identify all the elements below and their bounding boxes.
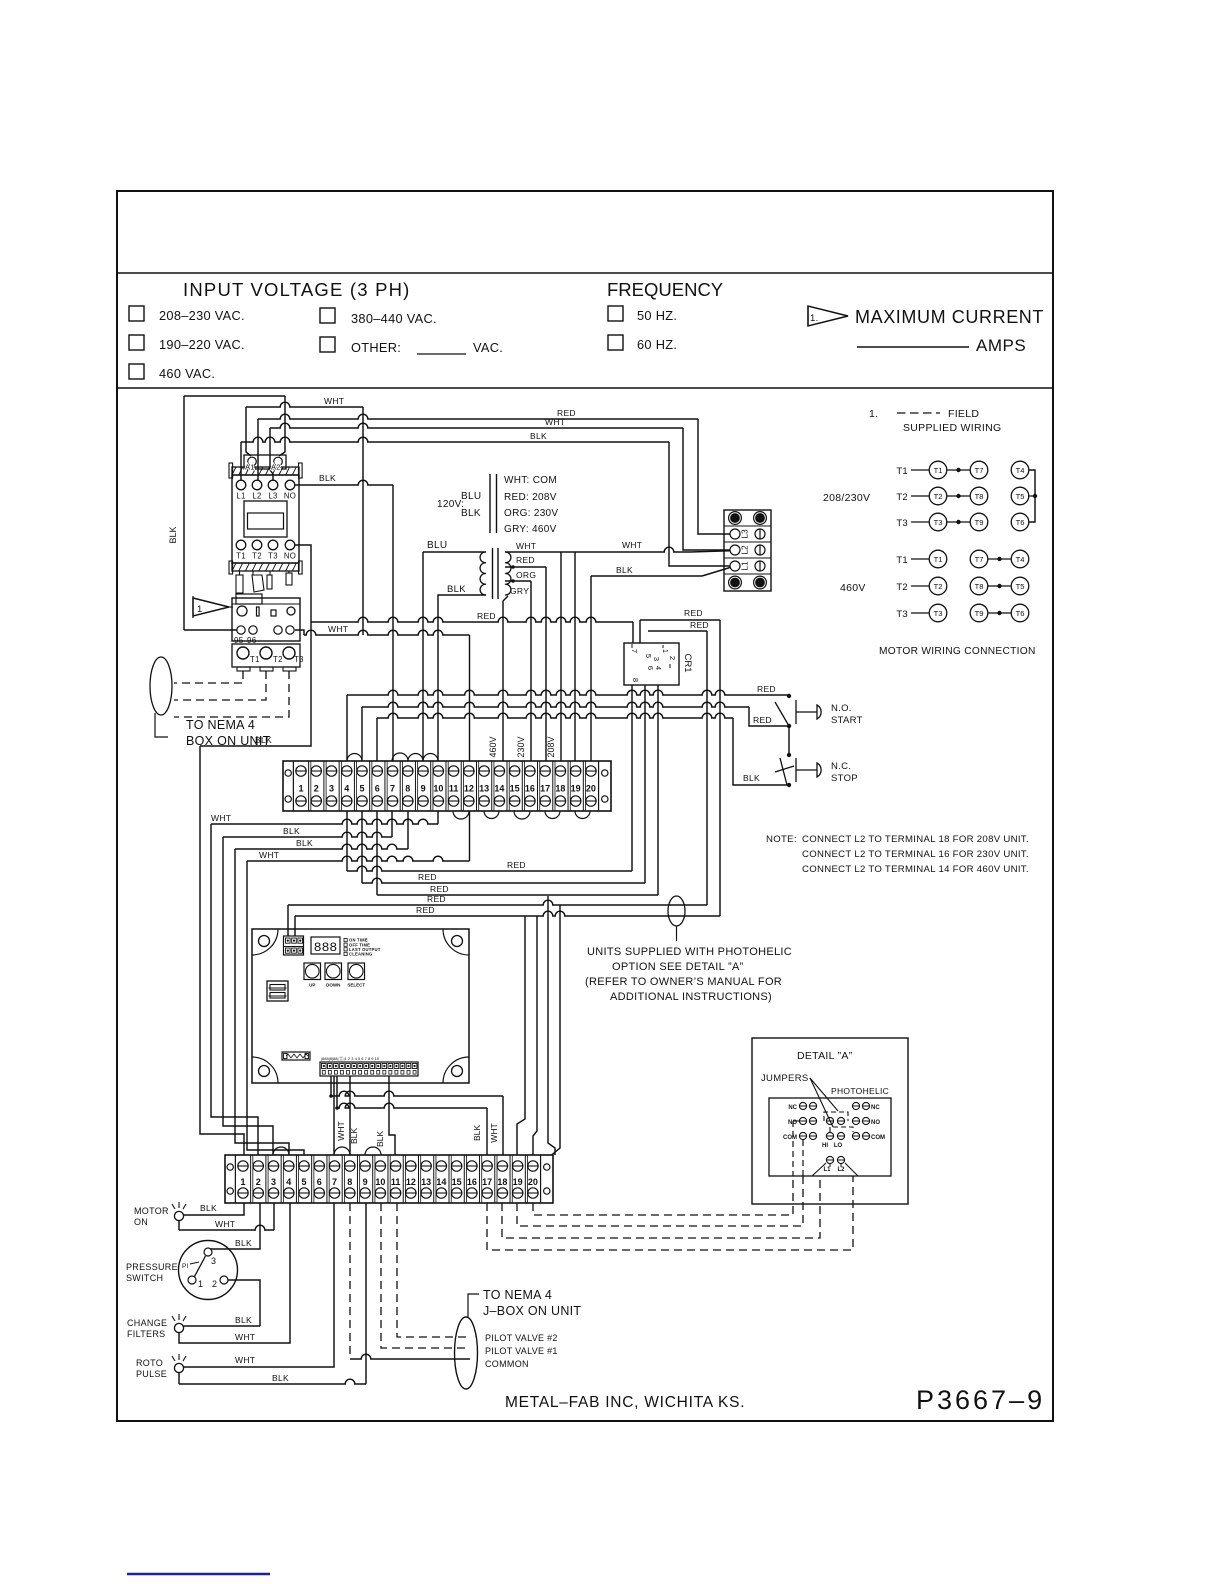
photohelic L1 L2	[826, 1156, 833, 1163]
svg-text:DOWN: DOWN	[326, 983, 340, 988]
terminal strip lower	[225, 1155, 553, 1203]
dashed lead T2	[174, 671, 266, 700]
contactor L3 pole	[268, 480, 278, 490]
svg-text:208–230 VAC.: 208–230 VAC.	[159, 308, 245, 323]
svg-text:14: 14	[494, 784, 504, 794]
svg-text:PHOTOHELIC: PHOTOHELIC	[831, 1086, 889, 1096]
svg-text:RED: RED	[507, 860, 526, 870]
svg-text:ROTO: ROTO	[136, 1358, 163, 1368]
overload relay notch	[236, 594, 262, 604]
svg-text:18: 18	[497, 1177, 507, 1187]
svg-text:1: 1	[197, 604, 203, 615]
svg-text:5: 5	[302, 1177, 307, 1187]
svg-text:CONNECT L2 TO TERMINAL 18: CONNECT L2 TO TERMINAL 18 FOR 208V UNIT.	[802, 834, 1029, 845]
pressure switch contact 1	[188, 1276, 196, 1284]
svg-text:T1: T1	[236, 552, 246, 561]
relay CR1 box	[624, 643, 679, 685]
transformer primary coil	[480, 552, 486, 595]
photohelic COM left wire	[802, 1140, 804, 1176]
wire WHT drop to t18	[560, 552, 562, 761]
svg-text:T8: T8	[975, 582, 984, 591]
svg-text:T9: T9	[975, 518, 984, 527]
transformer legend bars	[489, 474, 491, 533]
svg-text:20: 20	[528, 1177, 538, 1187]
option callout ellipse	[668, 896, 685, 926]
svg-text:FREQUENCY: FREQUENCY	[607, 279, 723, 300]
svg-text:P3667–9: P3667–9	[916, 1385, 1045, 1415]
svg-text:PILOT VALVE #2: PILOT VALVE #2	[485, 1333, 558, 1343]
wire t12 top stub	[469, 635, 471, 761]
contactor NO bottom pole	[285, 540, 295, 550]
wire ctrl BLK t8	[349, 1076, 351, 1155]
nema box ellipse	[150, 657, 172, 715]
overload aux terminals	[274, 626, 282, 634]
svg-text:T1: T1	[250, 655, 260, 664]
svg-text:JUMPERS: JUMPERS	[761, 1073, 809, 1084]
svg-text:T1: T1	[896, 466, 908, 477]
overload lever	[257, 607, 260, 616]
option callout leader	[676, 926, 678, 941]
svg-text:WHT: COM: WHT: COM	[504, 475, 557, 486]
svg-text:BLK: BLK	[616, 565, 633, 575]
svg-text:20: 20	[586, 784, 596, 794]
svg-text:18: 18	[555, 784, 565, 794]
wire t5 down	[361, 811, 363, 883]
svg-text:NO: NO	[284, 492, 296, 501]
wire BLK into L1	[669, 442, 730, 566]
wire roto WHT	[184, 1203, 334, 1367]
wire t8 stub	[407, 811, 409, 849]
wire CR1 pin6 bottom	[644, 685, 646, 883]
svg-text:WHT: WHT	[545, 417, 565, 427]
detail A outer box	[752, 1038, 908, 1204]
svg-text:1: 1	[240, 1177, 245, 1187]
photohelic jumper dashes	[824, 1112, 848, 1121]
svg-text:RED: RED	[427, 894, 446, 904]
checkbox 60HZ	[608, 335, 623, 350]
svg-text:WHT: WHT	[235, 1355, 255, 1365]
svg-text:CHANGE: CHANGE	[127, 1318, 167, 1328]
svg-text:ORG: 230V: ORG: 230V	[504, 508, 558, 519]
contactor linkage	[236, 575, 243, 593]
wire vert x363 WHT	[362, 407, 364, 635]
svg-text:L2: L2	[837, 1167, 845, 1173]
svg-text:T1: T1	[934, 466, 943, 475]
wire vert x246 to A1	[246, 407, 251, 456]
start switch arm	[775, 702, 789, 726]
upper strip hop arcs top	[347, 754, 362, 761]
wire WHT drop to t19	[574, 552, 576, 761]
contactor A1A2 box	[244, 455, 286, 469]
svg-text:UP: UP	[309, 983, 315, 988]
svg-text:1: 1	[661, 649, 670, 653]
checkbox 460	[129, 364, 144, 379]
contactor L1 pole	[236, 480, 246, 490]
svg-text:WHT: WHT	[336, 1121, 346, 1140]
wire t12 bottom stub	[469, 811, 471, 861]
wire vert L3 feed	[270, 428, 273, 480]
overload top line	[232, 603, 300, 605]
svg-text:J–BOX ON UNIT: J–BOX ON UNIT	[483, 1304, 581, 1318]
controller fuse	[267, 981, 288, 1001]
svg-text:CR1: CR1	[682, 653, 693, 672]
svg-text:T2: T2	[896, 492, 908, 503]
wire RED drop to t17	[545, 567, 547, 761]
wire t6 down	[376, 811, 378, 895]
svg-text:5: 5	[644, 654, 653, 658]
svg-text:GRY: 460V: GRY: 460V	[504, 524, 557, 535]
wire filters BLK	[184, 1325, 260, 1327]
svg-text:RED: RED	[690, 620, 709, 630]
power block rows	[724, 525, 771, 527]
controller indicator labels	[344, 939, 347, 942]
svg-text:|888|8|88| ▒ |1 2 3 4 5: |888|8|88| ▒ |1 2 3 4 5 6 7 8 9 10	[321, 1056, 380, 1061]
photohelic box	[769, 1098, 891, 1176]
wire RED y631	[648, 630, 707, 632]
nema box leader	[155, 713, 168, 737]
start actuator bar	[795, 700, 797, 724]
svg-text:3: 3	[211, 1256, 216, 1266]
wire BLK y837	[223, 832, 392, 837]
checkbox OTHER	[320, 337, 335, 352]
svg-text:12: 12	[406, 1177, 416, 1187]
lamp ROTO PULSE	[174, 1363, 183, 1372]
svg-text:888: 888	[314, 940, 337, 955]
wire 95 left	[184, 629, 237, 631]
svg-text:N.O.: N.O.	[831, 703, 852, 714]
stop actuator bar	[795, 758, 797, 782]
wire vert x548	[548, 896, 555, 1155]
wire dashed t19	[517, 1176, 803, 1226]
svg-text:9: 9	[363, 1177, 368, 1187]
wire BLK secondary	[438, 595, 486, 761]
wire vert x537	[533, 916, 537, 1155]
wire CR1 pin8 bottom	[631, 685, 633, 871]
wire vert x235	[235, 849, 289, 1155]
svg-text:T3: T3	[896, 518, 908, 529]
amps underline	[857, 346, 969, 348]
svg-text:FIELD: FIELD	[948, 408, 979, 420]
svg-text:WHT: WHT	[235, 1332, 255, 1342]
wire roto BLK	[178, 1373, 180, 1384]
svg-text:L1: L1	[823, 1167, 831, 1173]
svg-text:15: 15	[510, 784, 520, 794]
controller input terminal block	[284, 936, 304, 955]
svg-text:8: 8	[347, 1177, 352, 1187]
svg-text:BLK: BLK	[296, 838, 313, 848]
overload button	[271, 610, 276, 616]
controller output terminal row	[320, 1062, 418, 1076]
svg-text:ORG: ORG	[516, 570, 536, 580]
svg-text:RED: RED	[477, 611, 496, 621]
svg-text:10: 10	[433, 784, 443, 794]
start switch contacts	[787, 694, 791, 698]
pressure switch body	[179, 1241, 238, 1300]
svg-text:50 HZ.: 50 HZ.	[637, 308, 677, 323]
overload 96 terminal	[249, 626, 257, 634]
svg-text:BLK: BLK	[255, 735, 272, 745]
svg-text:COM: COM	[871, 1135, 885, 1141]
svg-text:13: 13	[421, 1177, 431, 1187]
svg-text:8: 8	[405, 784, 410, 794]
wire CR1 pin top x640	[639, 620, 641, 643]
contactor body	[232, 475, 299, 563]
wire RED y419	[258, 414, 698, 419]
svg-text:6: 6	[317, 1177, 322, 1187]
svg-text:PRESSURE: PRESSURE	[126, 1262, 178, 1272]
wire WHT y407	[246, 402, 363, 407]
svg-text:6: 6	[646, 666, 655, 670]
svg-text:RED: RED	[757, 684, 776, 694]
svg-text:WHT: WHT	[489, 1123, 499, 1142]
overload lower body	[232, 644, 300, 667]
svg-text:BLK: BLK	[461, 508, 481, 519]
svg-text:BLK: BLK	[235, 1315, 252, 1325]
wire psw3 BLK t2	[210, 1203, 260, 1249]
svg-text:460V: 460V	[840, 582, 866, 594]
svg-text:460V: 460V	[488, 736, 498, 757]
wire vert x184	[183, 396, 185, 630]
wire ORG tap	[505, 580, 531, 582]
svg-text:17: 17	[540, 784, 550, 794]
header divider line 1	[117, 272, 1053, 274]
wire vert x223	[223, 837, 273, 1155]
wire vert x285 to A2	[279, 396, 285, 456]
svg-text:3: 3	[271, 1177, 276, 1187]
controller board outline	[252, 929, 469, 1083]
svg-text:11: 11	[391, 1177, 401, 1187]
transformer secondary coil	[505, 552, 511, 595]
overload test hole	[287, 607, 295, 615]
svg-text:WHT: WHT	[516, 541, 536, 551]
svg-text:T2: T2	[896, 582, 908, 593]
wire RED bus y622	[311, 617, 633, 622]
wire RED tap	[505, 566, 546, 568]
wire ORG drop to t16	[530, 581, 532, 761]
svg-text:16: 16	[525, 784, 535, 794]
svg-text:CONNECT L2 TO TERMINAL 14: CONNECT L2 TO TERMINAL 14 FOR 460V UNIT.	[802, 864, 1029, 875]
wire vert x560	[552, 905, 561, 1155]
svg-text:BLK: BLK	[235, 1238, 252, 1248]
svg-text:L3: L3	[268, 492, 277, 501]
contactor A2 terminal	[274, 457, 283, 466]
wire vert x525	[517, 916, 525, 1155]
svg-text:NO: NO	[871, 1120, 880, 1126]
wire dashed t8 common	[349, 1203, 351, 1359]
svg-text:7: 7	[390, 784, 395, 794]
wire bus y718	[377, 713, 733, 718]
svg-text:208V: 208V	[546, 736, 556, 757]
svg-text:NO: NO	[284, 552, 296, 561]
svg-text:SWITCH: SWITCH	[126, 1273, 163, 1283]
svg-text:T7: T7	[975, 466, 984, 475]
wire RED y905	[288, 900, 707, 905]
wire WHT into L2	[683, 428, 730, 550]
svg-text:WHT: WHT	[211, 813, 231, 823]
svg-text:BLK: BLK	[200, 1203, 217, 1213]
wire ctrl WHT t7	[333, 1076, 335, 1155]
terminal strip upper	[283, 761, 611, 811]
svg-text:CLEANING: CLEANING	[349, 952, 372, 957]
svg-text:NOTE:: NOTE:	[766, 834, 797, 845]
svg-text:ON: ON	[134, 1217, 148, 1227]
wire BLK NO y485	[295, 480, 393, 485]
svg-text:T4: T4	[1016, 555, 1025, 564]
wire vert x393 to t7	[392, 485, 394, 761]
svg-text:T8: T8	[975, 492, 984, 501]
overload reset hole	[237, 606, 247, 616]
dashed lead T3	[174, 671, 289, 717]
flag 1 at overload	[193, 598, 229, 616]
svg-text:T5: T5	[1016, 582, 1025, 591]
svg-text:60 HZ.: 60 HZ.	[637, 337, 677, 352]
wire dashed t10 pv1	[381, 1203, 470, 1348]
svg-text:12: 12	[464, 784, 474, 794]
border frame	[117, 191, 1053, 1421]
flag 1 maximum current	[808, 306, 848, 326]
wire GRY drop to t14	[503, 596, 508, 761]
contactor top rail	[232, 467, 299, 475]
checkbox 190-220	[129, 335, 144, 350]
svg-text:SUPPLIED WIRING: SUPPLIED WIRING	[903, 422, 1001, 434]
wire dashed t20	[533, 1176, 793, 1215]
svg-text:190–220 VAC.: 190–220 VAC.	[159, 337, 245, 352]
svg-text:RED: 208V: RED: 208V	[504, 492, 557, 503]
svg-text:MOTOR WIRING CONNECTION: MOTOR WIRING CONNECTION	[879, 646, 1036, 657]
wire dashed t11 pv2	[397, 1203, 470, 1337]
svg-text:7: 7	[630, 649, 639, 653]
controller display	[311, 937, 340, 954]
svg-text:T5: T5	[1016, 492, 1025, 501]
svg-text:T2: T2	[934, 492, 943, 501]
wire t5 up	[361, 707, 363, 761]
svg-text:10: 10	[375, 1177, 385, 1187]
svg-text:BLK: BLK	[447, 584, 466, 595]
svg-text:ADDITIONAL INSTRUCTIONS): ADDITIONAL INSTRUCTIONS)	[610, 991, 772, 1003]
overload T1 bottom	[237, 647, 249, 659]
wire bus y695	[347, 690, 789, 695]
svg-text:460 VAC.: 460 VAC.	[159, 366, 215, 381]
svg-text:11: 11	[449, 784, 459, 794]
svg-text:BLK: BLK	[272, 1373, 289, 1383]
wire dashed t18	[502, 1176, 820, 1238]
photohelic L2 stub	[840, 1164, 842, 1167]
svg-text:HI: HI	[822, 1143, 828, 1149]
svg-text:PILOT VALVE #1: PILOT VALVE #1	[485, 1346, 558, 1356]
stop switch arm	[780, 758, 787, 785]
svg-text:2: 2	[256, 1177, 261, 1187]
svg-text:PULSE: PULSE	[136, 1369, 167, 1379]
svg-text:L1: L1	[236, 492, 245, 501]
dashed lead T1	[174, 671, 243, 683]
svg-text:INPUT VOLTAGE (3 PH): INPUT VOLTAGE (3 PH)	[183, 279, 411, 300]
svg-text:15: 15	[452, 1177, 462, 1187]
svg-text:T3: T3	[294, 655, 304, 664]
svg-text:LO: LO	[834, 1143, 843, 1149]
wire motor WHT	[178, 1221, 180, 1230]
svg-text:T4: T4	[1016, 466, 1025, 475]
stop switch contacts	[787, 783, 791, 787]
svg-text:STOP: STOP	[831, 773, 858, 784]
svg-text:DETAIL ”A”: DETAIL ”A”	[797, 1050, 853, 1062]
svg-text:WHT: WHT	[215, 1219, 235, 1229]
wire NO pole down x311	[200, 545, 311, 746]
checkbox 208-230	[129, 306, 144, 321]
svg-text:L3: L3	[740, 529, 750, 539]
svg-text:1.: 1.	[810, 313, 819, 324]
svg-text:NC: NC	[788, 1105, 797, 1111]
svg-text:19: 19	[513, 1177, 523, 1187]
svg-text:8: 8	[631, 678, 640, 682]
wire t4 down	[346, 811, 348, 871]
svg-text:AMPS: AMPS	[976, 336, 1026, 355]
svg-text:2: 2	[212, 1279, 217, 1289]
svg-text:T3: T3	[934, 609, 943, 618]
svg-text:PI: PI	[182, 1263, 189, 1270]
svg-text:CONNECT L2 TO TERMINAL 16: CONNECT L2 TO TERMINAL 16 FOR 230V UNIT.	[802, 849, 1029, 860]
svg-text:BLK: BLK	[530, 431, 547, 441]
svg-text:WHT: WHT	[324, 396, 344, 406]
svg-text:1: 1	[198, 1279, 203, 1289]
svg-text:T6: T6	[1016, 518, 1025, 527]
wire vert x295	[294, 916, 296, 936]
contactor bottom rail	[232, 563, 299, 571]
svg-text:9: 9	[421, 784, 426, 794]
svg-text:BLK: BLK	[472, 1125, 482, 1141]
wire WHT bus y635	[295, 630, 304, 635]
svg-text:SELECT: SELECT	[347, 983, 365, 988]
svg-text:N.C.: N.C.	[831, 761, 851, 772]
contactor T3 pole	[268, 540, 278, 550]
wire dashed t17	[487, 1176, 853, 1250]
svg-text:230V: 230V	[516, 736, 526, 757]
wire RED y895	[377, 894, 658, 896]
svg-text:A1: A1	[245, 463, 255, 472]
svg-text:13: 13	[479, 784, 489, 794]
svg-text:BLK: BLK	[375, 1131, 385, 1147]
svg-text:BLK: BLK	[349, 1128, 359, 1144]
svg-text:BLK: BLK	[283, 826, 300, 836]
wire ctrl BLK t17	[336, 1076, 338, 1108]
svg-text:L1: L1	[740, 561, 750, 571]
wire psw2 to filters	[228, 1280, 260, 1326]
svg-text:UNITS SUPPLIED WITH PHOTOHE: UNITS SUPPLIED WITH PHOTOHELIC	[587, 946, 792, 958]
svg-text:T3: T3	[934, 518, 943, 527]
svg-text:TO NEMA 4: TO NEMA 4	[483, 1288, 552, 1302]
overload T3 bottom	[283, 647, 295, 659]
wire vert x720	[719, 620, 721, 916]
svg-text:T1: T1	[934, 555, 943, 564]
checkbox 380-440	[320, 308, 335, 323]
svg-text:WHT: WHT	[328, 624, 348, 634]
wire t4 up	[346, 695, 348, 761]
wire start to stop	[788, 726, 790, 755]
stop button head	[817, 763, 821, 777]
wire t6 up	[376, 718, 378, 761]
contactor T2 pole	[252, 540, 262, 550]
wire RED y620	[640, 619, 720, 621]
wire vert L2 feed	[257, 419, 259, 480]
svg-text:COM: COM	[783, 1135, 797, 1141]
svg-text:T2: T2	[934, 582, 943, 591]
contactor NO top pole	[285, 480, 295, 490]
lower strip hop arcs top	[273, 1147, 289, 1155]
wire ctrl WHT t18	[330, 1076, 332, 1096]
svg-text:6: 6	[375, 784, 380, 794]
wire vert x247	[247, 861, 304, 1155]
svg-text:WHT: WHT	[622, 540, 642, 550]
upper strip jumper arcs bottom	[453, 811, 469, 819]
